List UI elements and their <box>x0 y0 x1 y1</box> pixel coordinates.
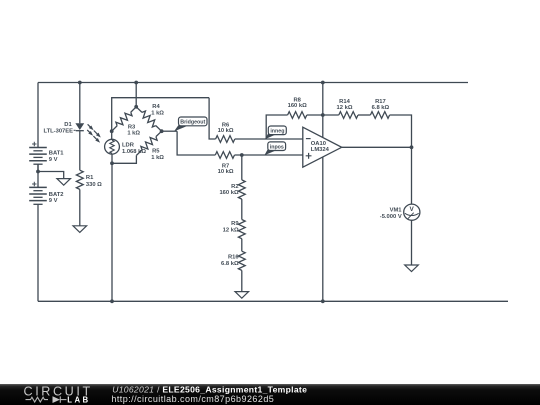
svg-text:6.8 kΩ: 6.8 kΩ <box>221 261 239 267</box>
LDR incoming arrows <box>94 131 99 136</box>
svg-text:R5: R5 <box>152 149 160 155</box>
wire left battery column top <box>37 83 39 148</box>
svg-text:R17: R17 <box>375 99 386 105</box>
svg-text:R4: R4 <box>152 104 160 110</box>
wire R7 right to opamp plus <box>235 154 303 156</box>
wire bridgeout riser down to inpos row <box>177 131 215 155</box>
diode D1 LED <box>75 123 84 130</box>
svg-text:6.8 kΩ: 6.8 kΩ <box>372 105 390 111</box>
footer logo schematic <box>26 396 67 402</box>
wire opamp V- to bottom rail <box>322 157 324 301</box>
svg-text:V: V <box>409 206 414 213</box>
svg-text:http://circuitlab.com/cm87p6b9: http://circuitlab.com/cm87p6b9262d5 <box>111 394 274 404</box>
svg-text:1 kΩ: 1 kΩ <box>127 131 140 137</box>
svg-text:inpos: inpos <box>270 145 284 151</box>
LED emission arrows <box>88 124 92 128</box>
svg-text:1.068 kΩ: 1.068 kΩ <box>122 149 146 155</box>
svg-text:R3: R3 <box>128 124 136 130</box>
wire inneg riser R8 loop left <box>266 115 287 139</box>
wire BAT2 bottom to bottom rail <box>37 204 39 301</box>
node R7 inpos R2 <box>240 153 244 157</box>
wire R8 right to junction <box>307 114 339 116</box>
svg-text:BAT1: BAT1 <box>49 151 64 157</box>
wire opamp output <box>342 146 412 148</box>
node bridge left <box>110 129 114 133</box>
node bridge right <box>160 129 164 133</box>
svg-text:12 kΩ: 12 kΩ <box>337 105 353 111</box>
battery BAT1 <box>29 142 47 172</box>
wire bridge top riser <box>135 83 137 107</box>
flag Bridgeout <box>174 125 187 132</box>
svg-text:10 kΩ: 10 kΩ <box>218 169 234 175</box>
node R8 R14 V+ <box>321 113 325 117</box>
wire R2 to R9 <box>241 199 243 219</box>
svg-text:160 kΩ: 160 kΩ <box>288 103 308 109</box>
svg-text:LTL-307EE: LTL-307EE <box>43 129 73 135</box>
wire R17 right corner down to output <box>390 115 412 147</box>
ground R1 <box>73 226 87 233</box>
wire R1 to ground <box>79 189 81 225</box>
wire LDR bottom to node <box>111 154 113 163</box>
wire R14 to R17 <box>358 114 370 116</box>
wire bridge bottom link <box>112 155 136 163</box>
resistor R5 <box>136 131 161 155</box>
svg-text:D1: D1 <box>64 122 72 128</box>
svg-text:R16: R16 <box>228 255 239 261</box>
svg-text:Bridgeout: Bridgeout <box>180 120 205 126</box>
ground R16 <box>235 292 249 299</box>
footer bar <box>0 384 540 405</box>
svg-text:U1062021 / ELE2506_Assignment1: U1062021 / ELE2506_Assignment1_Template <box>112 384 307 394</box>
wire bridgeout node to riser <box>162 130 178 132</box>
voltmeter VM1 <box>404 204 420 220</box>
svg-text:LM324: LM324 <box>311 147 330 153</box>
node LDR bottom rail <box>110 299 114 303</box>
wire R16 to ground <box>241 270 243 291</box>
svg-text:LAB: LAB <box>67 396 90 405</box>
resistor R3 <box>112 107 137 131</box>
junction battery mid <box>36 170 40 174</box>
node bridge bottom <box>110 161 114 165</box>
svg-text:R14: R14 <box>339 99 350 105</box>
svg-text:-5.000 V: -5.000 V <box>380 214 402 220</box>
ground VM1 <box>405 265 419 272</box>
wire LDR top <box>111 131 113 139</box>
resistor R7 <box>215 152 234 159</box>
battery BAT2 <box>29 182 47 205</box>
svg-text:1 kΩ: 1 kΩ <box>151 111 164 117</box>
node opamp V- rail <box>321 299 325 303</box>
wire R9 to R16 <box>241 239 243 252</box>
svg-text:10 kΩ: 10 kΩ <box>218 128 234 134</box>
wire D1 column from rail <box>79 83 81 124</box>
wire LDR node to bottom rail <box>111 163 113 301</box>
svg-text:330 Ω: 330 Ω <box>86 182 102 188</box>
wire output to voltmeter <box>411 147 413 204</box>
resistor R17 <box>370 112 389 119</box>
flag inpos <box>264 149 275 156</box>
node bridge top <box>134 105 138 109</box>
wire R6 riser <box>209 98 216 139</box>
resistor R14 <box>339 112 358 119</box>
resistor R1 <box>76 170 83 189</box>
svg-text:9 V: 9 V <box>49 198 58 204</box>
ground battery tap <box>57 179 71 186</box>
svg-text:R1: R1 <box>86 175 94 181</box>
node output <box>410 145 414 149</box>
wire battery mid tap to ground <box>38 172 64 179</box>
svg-text:inneg: inneg <box>270 129 284 135</box>
svg-text:9 V: 9 V <box>49 157 58 163</box>
wire opamp V+ riser <box>322 83 324 138</box>
resistor R6 <box>216 136 235 143</box>
wire R6 right to opamp minus <box>235 138 303 140</box>
op-amp OA10 <box>303 127 342 167</box>
wire between batteries <box>37 164 39 187</box>
resistor R4 <box>136 107 161 131</box>
node top rail D1 <box>78 81 82 85</box>
svg-text:LDR: LDR <box>122 143 135 149</box>
svg-text:1 kΩ: 1 kΩ <box>151 155 164 161</box>
resistor R16 <box>238 251 245 270</box>
svg-text:R9: R9 <box>231 221 239 227</box>
wire bridge left node riser and top link <box>112 98 209 132</box>
wire bottom rail <box>38 300 508 302</box>
resistor R2 <box>238 180 245 199</box>
node top rail opamp <box>321 81 325 85</box>
flag inneg <box>265 133 276 140</box>
wire voltmeter to ground <box>411 220 413 265</box>
wire D1 cathode to R1 <box>79 131 81 171</box>
node top rail bridge <box>134 81 138 85</box>
svg-text:VM1: VM1 <box>390 208 403 214</box>
wire top rail <box>38 82 468 84</box>
resistor R8 <box>288 112 307 119</box>
svg-text:160 kΩ: 160 kΩ <box>219 190 239 196</box>
svg-text:12 kΩ: 12 kΩ <box>223 228 239 234</box>
LDR photoresistor <box>105 139 120 154</box>
wire R2 column <box>241 155 243 180</box>
resistor R9 <box>238 220 245 239</box>
